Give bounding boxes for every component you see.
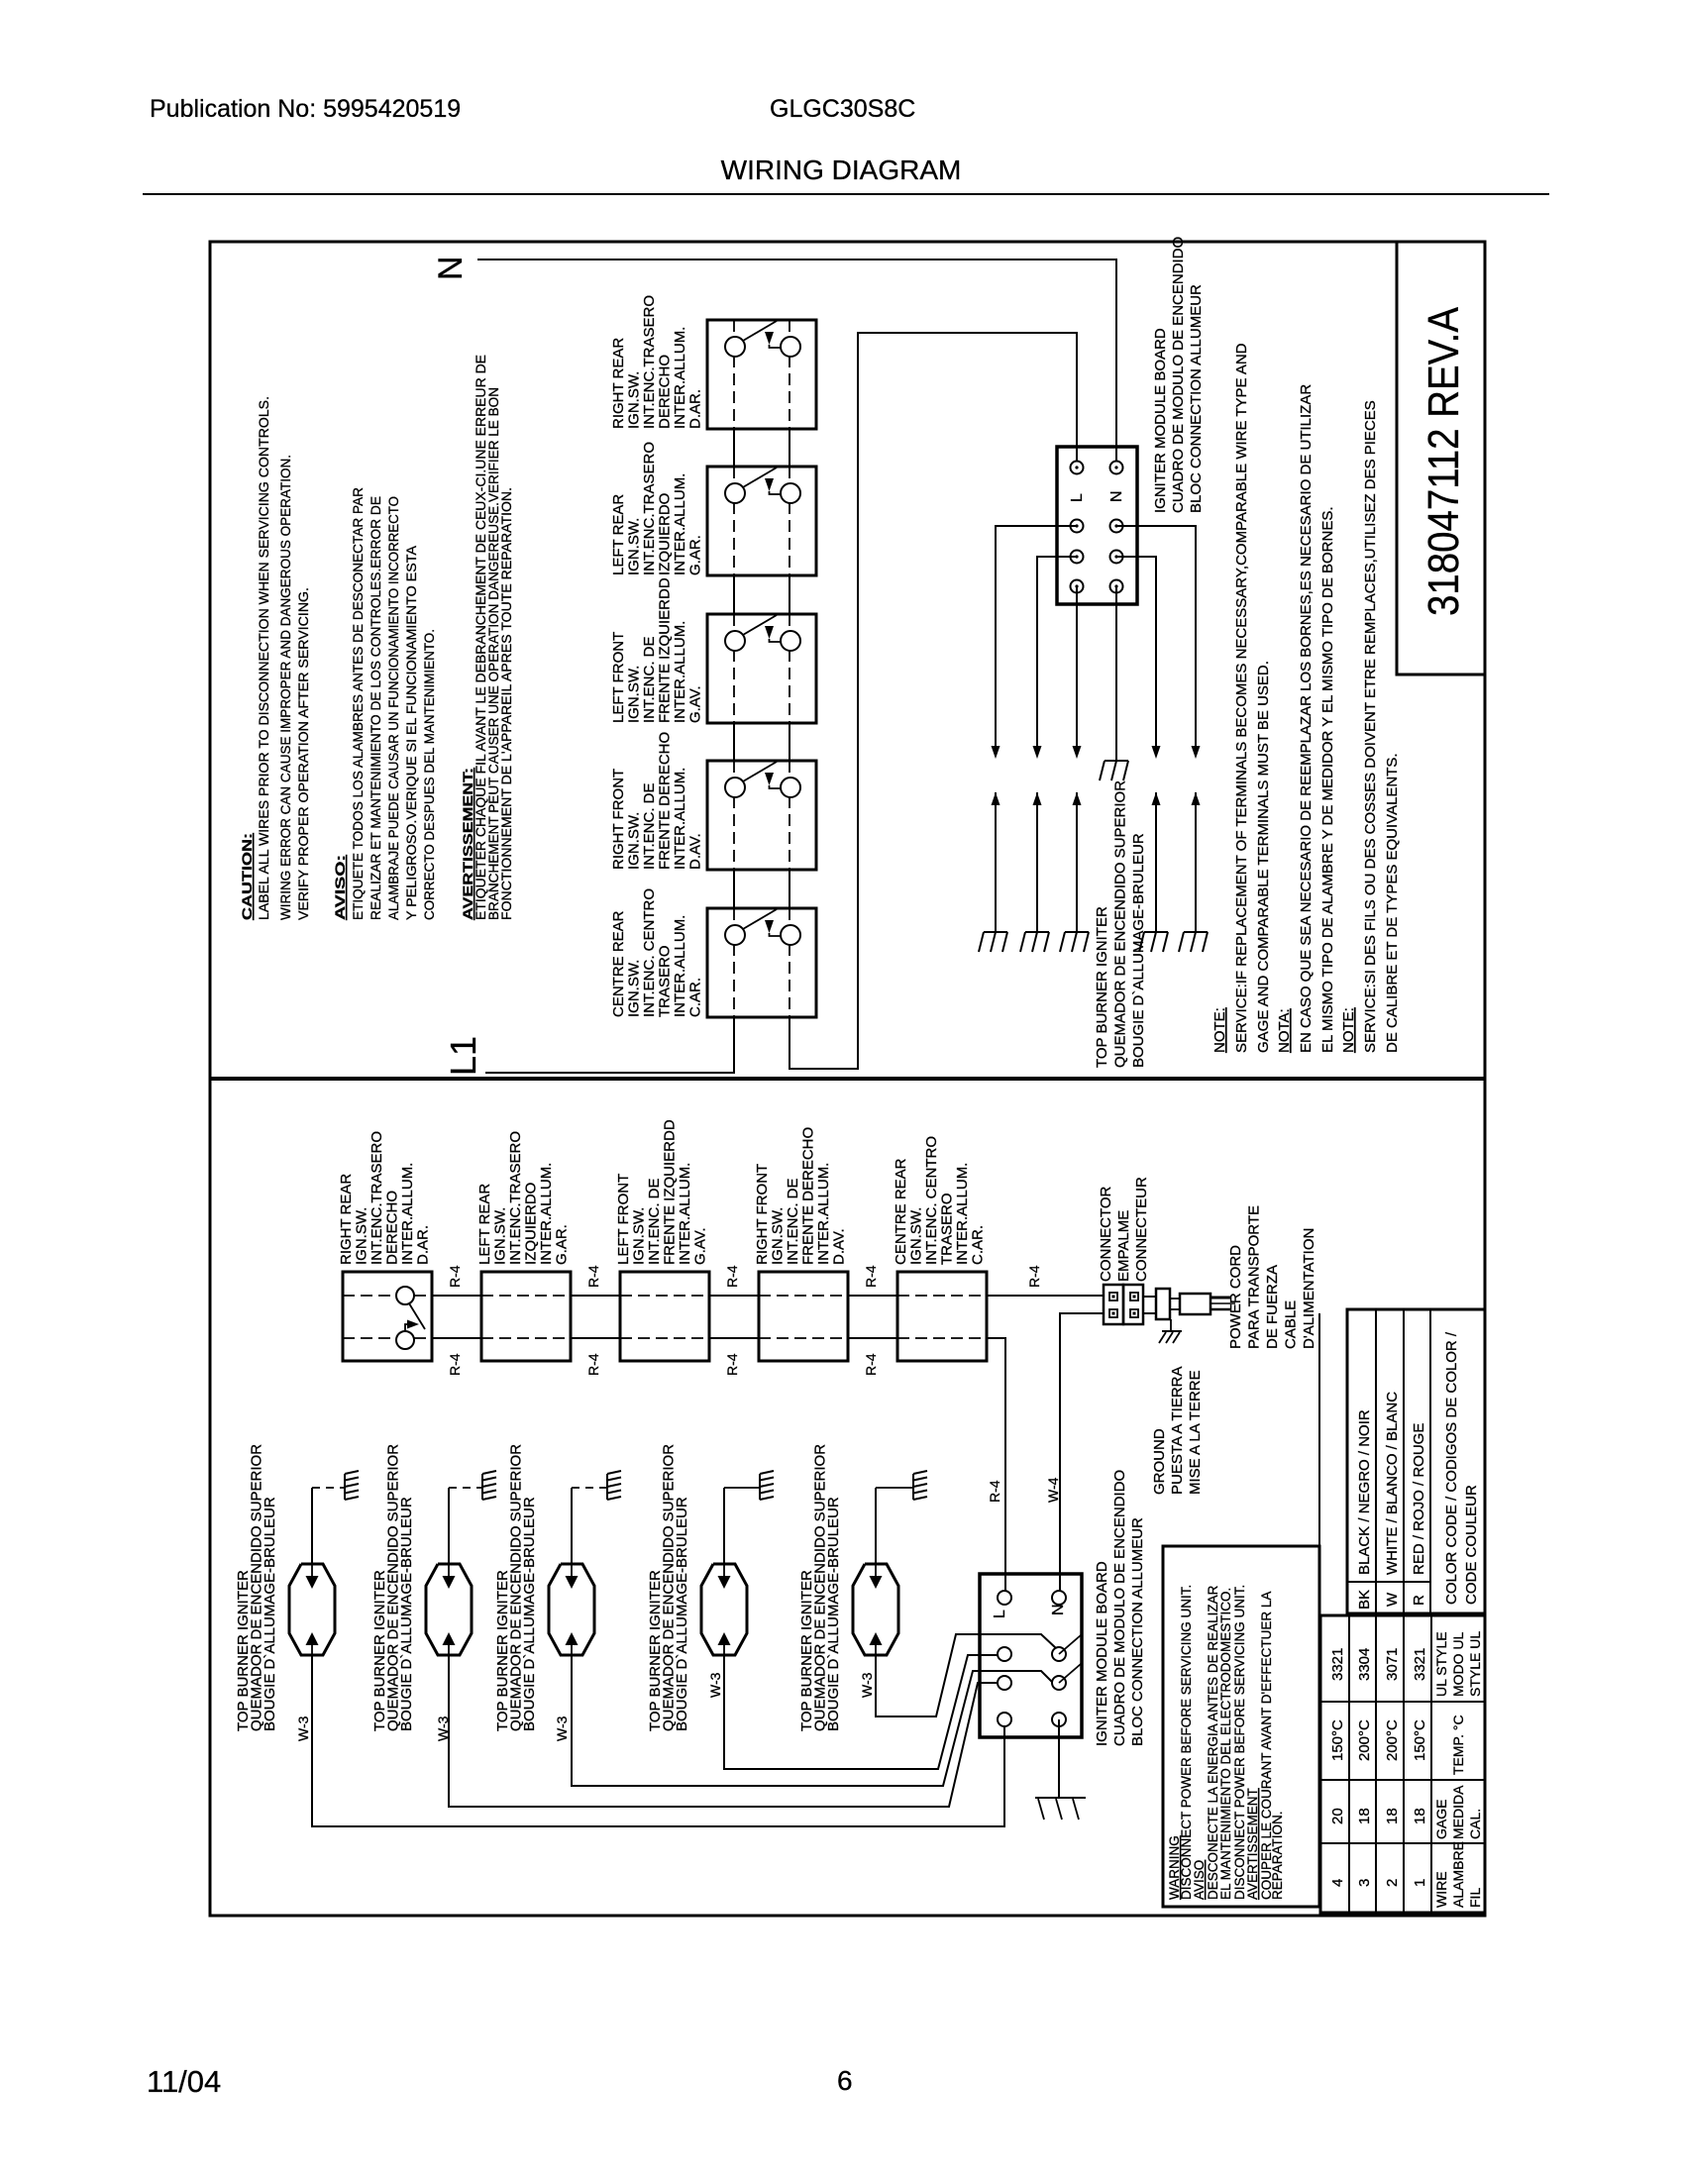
svg-text:11/04: 11/04 bbox=[147, 2064, 221, 2099]
svg-text:CENTRE REAR: CENTRE REAR bbox=[893, 1158, 909, 1265]
svg-text:RIGHT FRONT: RIGHT FRONT bbox=[754, 1164, 771, 1265]
label igniter module board (lower diagram) bbox=[1094, 1470, 1146, 1746]
svg-text:DE FUERZA: DE FUERZA bbox=[1264, 1265, 1281, 1349]
label centre rear switch (upper diagram) bbox=[610, 888, 704, 1017]
svg-text:ETIQUETE TODOS LOS ALAMBRES AN: ETIQUETE TODOS LOS ALAMBRES ANTES DE DES… bbox=[350, 487, 366, 920]
svg-text:2: 2 bbox=[1384, 1879, 1401, 1887]
svg-text:FRENTE IZQUIERDD: FRENTE IZQUIERDD bbox=[662, 1119, 679, 1265]
ignitor switch box left front (upper diagram) bbox=[707, 614, 816, 723]
svg-text:ALAMBRAJE PUEDE CAUSAR UN FUNC: ALAMBRAJE PUEDE CAUSAR UN FUNCIONAMIENTO… bbox=[385, 496, 401, 920]
svg-text:IGN.SW.: IGN.SW. bbox=[908, 1207, 925, 1265]
svg-text:INT.ENC.TRASERO: INT.ENC.TRASERO bbox=[641, 295, 658, 429]
svg-text:CENTRE REAR: CENTRE REAR bbox=[610, 910, 627, 1017]
svg-text:RED / ROJO / ROUGE: RED / ROJO / ROUGE bbox=[1411, 1423, 1427, 1575]
ignitor switch box right front (upper diagram) bbox=[707, 761, 816, 870]
svg-text:INT.ENC. DE: INT.ENC. DE bbox=[785, 1178, 801, 1265]
top burner igniter lead 5 with ground (upper diagram) bbox=[1179, 792, 1208, 952]
svg-text:DERECHO: DERECHO bbox=[657, 355, 674, 429]
svg-text:IGN.SW.: IGN.SW. bbox=[626, 666, 643, 723]
svg-text:W-4: W-4 bbox=[1045, 1477, 1061, 1503]
svg-text:BK: BK bbox=[1356, 1590, 1373, 1610]
wire board L2 output to burner arrow 1 bbox=[992, 526, 1078, 759]
svg-text:W: W bbox=[1384, 1592, 1401, 1607]
svg-text:3321: 3321 bbox=[1412, 1648, 1428, 1681]
svg-text:EL MISMO TIPO DE ALAMBRE Y DE: EL MISMO TIPO DE ALAMBRE Y DE MEDIDOR Y … bbox=[1319, 506, 1336, 1053]
svg-text:3321: 3321 bbox=[1329, 1648, 1346, 1681]
svg-text:NOTE:: NOTE: bbox=[1211, 1007, 1228, 1053]
wire bus segment between switch boxes (lower diagram) bbox=[709, 1296, 759, 1338]
ignitor switch box left rear (upper diagram) bbox=[707, 467, 816, 575]
wire igniter 4 electrode lead bbox=[724, 1488, 760, 1564]
svg-text:ALAMBRE: ALAMBRE bbox=[1450, 1841, 1466, 1908]
label centre rear switch (lower diagram) bbox=[893, 1136, 987, 1265]
svg-text:R-4: R-4 bbox=[724, 1353, 740, 1376]
svg-text:NOTA:: NOTA: bbox=[1276, 1008, 1293, 1053]
svg-text:VERIFY PROPER OPERATION AFTER: VERIFY PROPER OPERATION AFTER SERVICING. bbox=[295, 587, 311, 920]
svg-text:IGNITER MODULE BOARD: IGNITER MODULE BOARD bbox=[1152, 328, 1169, 513]
horizontal divider between upper and lower diagrams bbox=[210, 1077, 1485, 1081]
label connector bbox=[1098, 1177, 1150, 1282]
ignitor switch box left rear (lower diagram) bbox=[481, 1272, 571, 1361]
svg-text:D.AR.: D.AR. bbox=[687, 389, 704, 429]
svg-text:AVERTISSEMENT: AVERTISSEMENT bbox=[1245, 1788, 1260, 1900]
svg-text:BLOC CONNECTION ALLUMEUR: BLOC CONNECTION ALLUMEUR bbox=[1188, 284, 1205, 513]
wire igniter 1 electrode lead bbox=[312, 1488, 345, 1564]
label right front switch (lower diagram) bbox=[754, 1127, 848, 1265]
svg-text:UL STYLE: UL STYLE bbox=[1433, 1631, 1449, 1697]
svg-text:3: 3 bbox=[1356, 1879, 1373, 1887]
caution text block (CAUTION / AVISO / AVERTISSEMENT) bbox=[239, 355, 514, 920]
ignitor switch box right front (lower diagram) bbox=[759, 1272, 848, 1361]
top burner igniter 3 (octagon spark gap) bbox=[549, 1564, 594, 1655]
svg-text:GLGC30S8C: GLGC30S8C bbox=[770, 95, 915, 123]
svg-text:GAGE AND COMPARABLE TERMINALS: GAGE AND COMPARABLE TERMINALS MUST BE US… bbox=[1255, 661, 1272, 1053]
svg-text:PUESTA A TIERRA: PUESTA A TIERRA bbox=[1169, 1367, 1186, 1496]
svg-text:INTER.ALLUM.: INTER.ALLUM. bbox=[672, 327, 688, 429]
svg-text:INTER.ALLUM.: INTER.ALLUM. bbox=[677, 1163, 693, 1265]
wire gage table text bbox=[1329, 1631, 1483, 1908]
svg-text:3071: 3071 bbox=[1384, 1648, 1401, 1681]
svg-text:EN CASO QUE SEA NECESARIO DE R: EN CASO QUE SEA NECESARIO DE REEMPLAZAR … bbox=[1298, 384, 1315, 1053]
svg-text:R-4: R-4 bbox=[987, 1480, 1002, 1503]
svg-text:FRENTE IZQUIERDD: FRENTE IZQUIERDD bbox=[657, 577, 674, 723]
svg-text:STYLE UL: STYLE UL bbox=[1467, 1631, 1483, 1697]
svg-text:BLOC CONNECTION ALLUMEUR: BLOC CONNECTION ALLUMEUR bbox=[1129, 1517, 1146, 1746]
wire connector to power cord bbox=[1143, 1297, 1156, 1313]
svg-text:20: 20 bbox=[1329, 1808, 1346, 1824]
wire igniter 4 to board row2 L bbox=[724, 1655, 998, 1769]
svg-text:G.AV.: G.AV. bbox=[692, 1227, 709, 1265]
svg-text:R-4: R-4 bbox=[863, 1265, 879, 1288]
label top burner igniter 2 bbox=[371, 1444, 415, 1731]
svg-text:IGN.SW.: IGN.SW. bbox=[626, 371, 643, 429]
svg-text:150°C: 150°C bbox=[1412, 1719, 1428, 1761]
svg-text:WIRING DIAGRAM: WIRING DIAGRAM bbox=[721, 155, 962, 185]
svg-text:INT.ENC. CENTRO: INT.ENC. CENTRO bbox=[923, 1136, 940, 1265]
wire bus segment between switch boxes bbox=[734, 429, 789, 467]
svg-text:LABEL ALL WIRES PRIOR TO DISCO: LABEL ALL WIRES PRIOR TO DISCONNECTION W… bbox=[256, 396, 271, 920]
svg-text:R-4: R-4 bbox=[863, 1353, 879, 1376]
svg-text:3304: 3304 bbox=[1356, 1648, 1373, 1681]
top burner igniter lead 2 with ground (upper diagram) bbox=[1020, 792, 1049, 952]
svg-text:INT.ENC.TRASERO: INT.ENC.TRASERO bbox=[641, 442, 658, 575]
svg-text:W-3: W-3 bbox=[859, 1672, 875, 1698]
svg-text:IGN.SW.: IGN.SW. bbox=[626, 812, 643, 870]
ignitor switch box right rear (lower diagram) bbox=[343, 1272, 432, 1361]
svg-text:L1: L1 bbox=[443, 1036, 483, 1076]
svg-text:FRENTE DERECHO: FRENTE DERECHO bbox=[800, 1127, 817, 1265]
svg-text:DERECHO: DERECHO bbox=[384, 1191, 401, 1265]
svg-text:D.AV.: D.AV. bbox=[831, 1228, 848, 1265]
svg-text:R-4: R-4 bbox=[724, 1265, 740, 1288]
top burner igniter 4 (octagon spark gap) bbox=[701, 1564, 747, 1655]
svg-text:200°C: 200°C bbox=[1356, 1719, 1373, 1761]
svg-text:R-4: R-4 bbox=[447, 1265, 463, 1288]
wire L1 supply to switch bus bbox=[485, 1017, 734, 1073]
wire igniter 2 electrode lead bbox=[449, 1488, 482, 1564]
label igniter module board (upper diagram) bbox=[1152, 237, 1205, 513]
svg-text:FONCTIONNEMENT DE L'APPAREIL A: FONCTIONNEMENT DE L'APPAREIL APRES TOUTE… bbox=[498, 487, 514, 920]
svg-text:REPARATION.: REPARATION. bbox=[1270, 1811, 1285, 1900]
svg-text:GAGE: GAGE bbox=[1433, 1800, 1449, 1839]
svg-text:INTER.ALLUM.: INTER.ALLUM. bbox=[538, 1163, 555, 1265]
connector (2-pole) bbox=[1104, 1285, 1143, 1324]
svg-text:INT.ENC. DE: INT.ENC. DE bbox=[641, 782, 658, 870]
svg-text:INTER.ALLUM.: INTER.ALLUM. bbox=[672, 473, 688, 575]
svg-text:R-4: R-4 bbox=[447, 1353, 463, 1376]
switch contact symbol in right rear box (lower diagram) bbox=[396, 1287, 425, 1349]
svg-text:RIGHT FRONT: RIGHT FRONT bbox=[610, 769, 627, 870]
wire bus segment between switch boxes bbox=[734, 870, 789, 908]
svg-text:18: 18 bbox=[1412, 1808, 1428, 1824]
label top burner igniter 4 bbox=[647, 1444, 690, 1731]
burner electrode comb 2 bbox=[482, 1471, 496, 1500]
svg-text:CUADRO DE MODULO DE ENCENDIDO: CUADRO DE MODULO DE ENCENDIDO bbox=[1111, 1470, 1128, 1746]
svg-text:RIGHT REAR: RIGHT REAR bbox=[610, 338, 627, 429]
connector chassis ground bbox=[1159, 1319, 1182, 1343]
svg-text:C.AR.: C.AR. bbox=[687, 978, 704, 1017]
wire bus segment between switch boxes bbox=[734, 575, 789, 614]
svg-text:D.AV.: D.AV. bbox=[687, 833, 704, 870]
svg-text:N: N bbox=[432, 256, 470, 280]
svg-text:200°C: 200°C bbox=[1384, 1719, 1401, 1761]
svg-text:INTER.ALLUM.: INTER.ALLUM. bbox=[815, 1163, 832, 1265]
wire bus segment between switch boxes (lower diagram) bbox=[571, 1296, 620, 1338]
svg-text:BOUGIE D`ALLUMAGE-BRULEUR: BOUGIE D`ALLUMAGE-BRULEUR bbox=[1130, 833, 1147, 1068]
label power cord bbox=[1227, 1205, 1317, 1349]
color code table bbox=[1347, 1309, 1485, 1613]
svg-text:IGN.SW.: IGN.SW. bbox=[626, 518, 643, 575]
svg-text:INT.ENC.TRASERO: INT.ENC.TRASERO bbox=[368, 1131, 385, 1265]
svg-text:BOUGIE D`ALLUMAGE-BRULEUR: BOUGIE D`ALLUMAGE-BRULEUR bbox=[674, 1497, 690, 1731]
svg-text:AVISO: AVISO bbox=[1192, 1860, 1207, 1900]
wire igniter 1 to board row4 L bbox=[312, 1655, 1004, 1826]
svg-text:INT.ENC. CENTRO: INT.ENC. CENTRO bbox=[641, 888, 658, 1017]
part number box 318047112 REV.A bbox=[1397, 242, 1485, 675]
wire board N3 output to burner arrow 4 bbox=[1116, 557, 1161, 759]
burner electrode comb 4 bbox=[760, 1471, 774, 1500]
svg-text:BOUGIE D`ALLUMAGE-BRULEUR: BOUGIE D`ALLUMAGE-BRULEUR bbox=[825, 1497, 842, 1731]
label left rear switch (upper diagram) bbox=[610, 442, 704, 575]
wire lower board N4 to chassis ground bbox=[1035, 1719, 1086, 1820]
svg-text:INTER.ALLUM.: INTER.ALLUM. bbox=[399, 1163, 416, 1265]
wire top bus to connector bbox=[987, 1295, 1104, 1297]
svg-text:IZQUIERDO: IZQUIERDO bbox=[523, 1183, 540, 1265]
wire igniter 5 electrode lead bbox=[876, 1488, 913, 1564]
svg-text:MISE A LA TERRE: MISE A LA TERRE bbox=[1187, 1370, 1204, 1495]
svg-text:318047112 REV.A: 318047112 REV.A bbox=[1420, 306, 1468, 616]
svg-text:TRASERO: TRASERO bbox=[657, 945, 674, 1017]
svg-text:TRASERO: TRASERO bbox=[939, 1193, 956, 1265]
svg-text:CONNECTOR: CONNECTOR bbox=[1098, 1186, 1114, 1282]
svg-text:IGN.SW.: IGN.SW. bbox=[626, 960, 643, 1017]
svg-text:18: 18 bbox=[1356, 1808, 1373, 1824]
svg-text:CABLE: CABLE bbox=[1283, 1300, 1300, 1349]
svg-text:150°C: 150°C bbox=[1329, 1719, 1346, 1761]
wire right switch bus to igniter board L input bbox=[789, 333, 1077, 1069]
wire board L3 output to burner arrow 2 bbox=[1033, 557, 1078, 759]
svg-text:FIL: FIL bbox=[1467, 1888, 1483, 1908]
top burner igniter lead 3 with ground (upper diagram) bbox=[1060, 792, 1089, 952]
label top burner igniter 5 bbox=[798, 1444, 842, 1731]
svg-text:W-3: W-3 bbox=[554, 1716, 570, 1741]
color code table text bbox=[1356, 1331, 1480, 1610]
ignitor switch box centre rear (lower diagram) bbox=[897, 1272, 987, 1361]
svg-text:N: N bbox=[1050, 1604, 1067, 1615]
wire igniter 3 to board row3 N bbox=[572, 1655, 1056, 1786]
label ground bbox=[1151, 1367, 1204, 1496]
svg-text:INTER.ALLUM.: INTER.ALLUM. bbox=[672, 768, 688, 870]
svg-text:CORRECTO DESPUES DEL MANTENIMI: CORRECTO DESPUES DEL MANTENIMIENTO. bbox=[421, 629, 437, 920]
svg-text:G.AR.: G.AR. bbox=[687, 535, 704, 575]
svg-text:R-4: R-4 bbox=[585, 1353, 601, 1376]
svg-text:CAL.: CAL. bbox=[1467, 1809, 1483, 1839]
wire bus segment between switch boxes (lower diagram) bbox=[432, 1296, 481, 1338]
burner electrode comb 5 bbox=[913, 1471, 927, 1500]
svg-text:Publication No: 5995420519: Publication No: 5995420519 bbox=[150, 95, 461, 123]
svg-text:PARA TRANSPORTE: PARA TRANSPORTE bbox=[1246, 1205, 1263, 1349]
wire board N2 output to burner arrow 5 bbox=[1116, 526, 1201, 759]
label top burner igniter 1 bbox=[235, 1444, 278, 1731]
svg-text:INT.ENC. DE: INT.ENC. DE bbox=[641, 636, 658, 723]
svg-text:INTER.ALLUM.: INTER.ALLUM. bbox=[954, 1163, 971, 1265]
label top burner igniter (upper diagram) bbox=[1094, 780, 1147, 1068]
top burner igniter lead 1 with ground (upper diagram) bbox=[979, 792, 1007, 952]
svg-text:MODO UL: MODO UL bbox=[1450, 1631, 1466, 1697]
svg-text:W-3: W-3 bbox=[707, 1672, 723, 1698]
label right front switch (upper diagram) bbox=[610, 732, 704, 870]
svg-text:AVISO:: AVISO: bbox=[332, 855, 348, 920]
svg-text:FRENTE DERECHO: FRENTE DERECHO bbox=[657, 732, 674, 870]
svg-text:W-3: W-3 bbox=[295, 1716, 311, 1741]
svg-text:18: 18 bbox=[1384, 1808, 1401, 1824]
svg-text:EMPALME: EMPALME bbox=[1115, 1210, 1132, 1282]
wire gage table bbox=[1320, 1615, 1485, 1913]
wire igniter 5 to board row2 N bbox=[876, 1634, 1056, 1716]
warning box bbox=[1163, 1313, 1319, 1907]
svg-text:Y PELIGROSO.VERIQUE SI EL FUNC: Y PELIGROSO.VERIQUE SI EL FUNCIONAMIENTO… bbox=[403, 545, 419, 920]
svg-text:INT.ENC.TRASERO: INT.ENC.TRASERO bbox=[507, 1131, 524, 1265]
svg-text:BOUGIE D`ALLUMAGE-BRULEUR: BOUGIE D`ALLUMAGE-BRULEUR bbox=[262, 1497, 278, 1731]
svg-text:CAUTION:: CAUTION: bbox=[239, 833, 255, 920]
svg-text:WIRE: WIRE bbox=[1433, 1871, 1449, 1908]
svg-text:WHITE / BLANCO / BLANC: WHITE / BLANCO / BLANC bbox=[1384, 1392, 1401, 1575]
wire N supply to igniter board bbox=[477, 260, 1116, 466]
svg-text:G.AR.: G.AR. bbox=[554, 1224, 571, 1265]
svg-text:IGN.SW.: IGN.SW. bbox=[354, 1207, 370, 1265]
svg-text:IGNITER MODULE BOARD: IGNITER MODULE BOARD bbox=[1094, 1561, 1110, 1746]
ignitor switch box left front (lower diagram) bbox=[620, 1272, 709, 1361]
svg-text:POWER CORD: POWER CORD bbox=[1227, 1245, 1244, 1349]
svg-text:TEMP. °C: TEMP. °C bbox=[1450, 1715, 1466, 1775]
ignitor switch box centre rear (upper diagram) bbox=[707, 908, 816, 1017]
wire R-4 bottom bus to lower board terminal L bbox=[987, 1338, 1005, 1598]
wire igniter 3 electrode lead bbox=[572, 1488, 607, 1564]
svg-text:INTER.ALLUM.: INTER.ALLUM. bbox=[672, 915, 688, 1017]
svg-text:IZQUIERDO: IZQUIERDO bbox=[657, 493, 674, 575]
svg-text:RIGHT REAR: RIGHT REAR bbox=[338, 1174, 355, 1265]
svg-text:4: 4 bbox=[1329, 1879, 1346, 1887]
svg-text:COLOR CODE / CODIGOS DE COLOR: COLOR CODE / CODIGOS DE COLOR / bbox=[1443, 1331, 1460, 1605]
wire W-4 connector to lower board terminal N bbox=[1060, 1313, 1104, 1598]
igniter module board (upper diagram) bbox=[1057, 447, 1137, 604]
svg-text:6: 6 bbox=[837, 2065, 853, 2096]
header rule bbox=[143, 193, 1549, 195]
burner electrode comb 3 bbox=[607, 1471, 621, 1500]
wire board N4 output to chassis ground bbox=[1100, 586, 1128, 780]
svg-text:IGN.SW.: IGN.SW. bbox=[492, 1207, 509, 1265]
power cord strain relief bbox=[1156, 1289, 1170, 1319]
diagram outer border bbox=[210, 242, 1485, 1916]
svg-text:SERVICE:IF REPLACEMENT OF TERM: SERVICE:IF REPLACEMENT OF TERMINALS BECO… bbox=[1233, 343, 1250, 1053]
svg-text:BOUGIE D`ALLUMAGE-BRULEUR: BOUGIE D`ALLUMAGE-BRULEUR bbox=[521, 1497, 538, 1731]
svg-text:QUEMADOR DE ENCENDIDO SUPERIOR: QUEMADOR DE ENCENDIDO SUPERIOR bbox=[1112, 780, 1129, 1068]
svg-text:C.AR.: C.AR. bbox=[970, 1225, 987, 1265]
svg-text:SERVICE:SI DES FILS OU DES COS: SERVICE:SI DES FILS OU DES COSSES DOIVEN… bbox=[1362, 400, 1379, 1053]
power cord plug bbox=[1170, 1294, 1235, 1314]
svg-text:MEDIDA: MEDIDA bbox=[1450, 1785, 1466, 1839]
svg-text:R-4: R-4 bbox=[1026, 1265, 1042, 1288]
svg-text:N: N bbox=[1108, 490, 1125, 502]
svg-text:BOUGIE D`ALLUMAGE-BRULEUR: BOUGIE D`ALLUMAGE-BRULEUR bbox=[398, 1497, 415, 1731]
svg-text:NOTE:: NOTE: bbox=[1340, 1007, 1357, 1053]
label top burner igniter 3 bbox=[494, 1444, 538, 1731]
svg-text:R-4: R-4 bbox=[585, 1265, 601, 1288]
svg-text:GROUND: GROUND bbox=[1151, 1428, 1168, 1495]
wire bus segment between switch boxes bbox=[734, 723, 789, 761]
igniter module board (lower diagram) bbox=[980, 1574, 1082, 1737]
svg-text:CONNECTEUR: CONNECTEUR bbox=[1133, 1177, 1150, 1282]
svg-text:WIRING ERROR CAN CAUSE IMPROPE: WIRING ERROR CAN CAUSE IMPROPER AND DANG… bbox=[277, 455, 293, 920]
ignitor switch box right rear (upper diagram) bbox=[707, 320, 816, 429]
svg-text:BLACK / NEGRO / NOIR: BLACK / NEGRO / NOIR bbox=[1356, 1409, 1373, 1575]
svg-text:DISCONNECT POWER BEFORE SERVIC: DISCONNECT POWER BEFORE SERVICING UNIT. bbox=[1179, 1585, 1194, 1900]
svg-text:LEFT FRONT: LEFT FRONT bbox=[615, 1174, 632, 1265]
svg-text:INT.ENC. DE: INT.ENC. DE bbox=[646, 1178, 663, 1265]
top burner igniter lead 4 with ground (upper diagram) bbox=[1139, 792, 1168, 952]
svg-text:EL MANTENIMIENTO DEL ELECTRODO: EL MANTENIMIENTO DEL ELECTRODOMESTICO. bbox=[1218, 1588, 1233, 1900]
svg-text:INTER.ALLUM.: INTER.ALLUM. bbox=[672, 621, 688, 723]
svg-text:L: L bbox=[1069, 493, 1086, 502]
svg-text:G.AV.: G.AV. bbox=[687, 685, 704, 723]
svg-text:D.AR.: D.AR. bbox=[415, 1225, 432, 1265]
svg-text:DE CALIBRE ET DE TYPES EQUIVAL: DE CALIBRE ET DE TYPES EQUIVALENTS. bbox=[1384, 753, 1401, 1053]
top burner igniter 1 (octagon spark gap) bbox=[289, 1564, 335, 1655]
top burner igniter 5 (octagon spark gap) bbox=[853, 1564, 898, 1655]
svg-text:L: L bbox=[992, 1610, 1008, 1618]
svg-text:R: R bbox=[1411, 1595, 1427, 1606]
label right rear switch (upper diagram) bbox=[610, 295, 704, 429]
svg-text:CODE COULEUR: CODE COULEUR bbox=[1463, 1485, 1480, 1605]
svg-text:1: 1 bbox=[1412, 1879, 1428, 1887]
svg-text:CUADRO DE MODULO DE ENCENDIDO: CUADRO DE MODULO DE ENCENDIDO bbox=[1170, 237, 1187, 513]
label left rear switch (lower diagram) bbox=[476, 1131, 571, 1265]
warning text block bbox=[1167, 1585, 1285, 1900]
label right rear switch (lower diagram) bbox=[338, 1131, 432, 1265]
top burner igniter 2 (octagon spark gap) bbox=[426, 1564, 472, 1655]
svg-text:REALIZAR ET MANTENIMIENTO DE L: REALIZAR ET MANTENIMIENTO DE LOS CONTROL… bbox=[368, 496, 383, 920]
label left front switch (lower diagram) bbox=[615, 1119, 709, 1265]
wire board L4 output to burner arrow 3 bbox=[1073, 586, 1082, 759]
note text block (NOTE / NOTA / NOTE) bbox=[1211, 343, 1401, 1053]
burner electrode comb 1 bbox=[345, 1471, 359, 1500]
svg-text:D'ALIMENTATION: D'ALIMENTATION bbox=[1301, 1228, 1317, 1349]
svg-text:LEFT FRONT: LEFT FRONT bbox=[610, 632, 627, 723]
svg-text:LEFT REAR: LEFT REAR bbox=[610, 494, 627, 575]
svg-text:TOP BURNER IGNITER: TOP BURNER IGNITER bbox=[1094, 906, 1110, 1068]
svg-text:LEFT REAR: LEFT REAR bbox=[476, 1184, 493, 1265]
wire bus segment between switch boxes (lower diagram) bbox=[848, 1296, 897, 1338]
label left front switch (upper diagram) bbox=[610, 577, 704, 723]
svg-text:IGN.SW.: IGN.SW. bbox=[770, 1207, 787, 1265]
svg-text:IGN.SW.: IGN.SW. bbox=[631, 1207, 648, 1265]
wire igniter 2 to board row3 L bbox=[449, 1655, 998, 1807]
